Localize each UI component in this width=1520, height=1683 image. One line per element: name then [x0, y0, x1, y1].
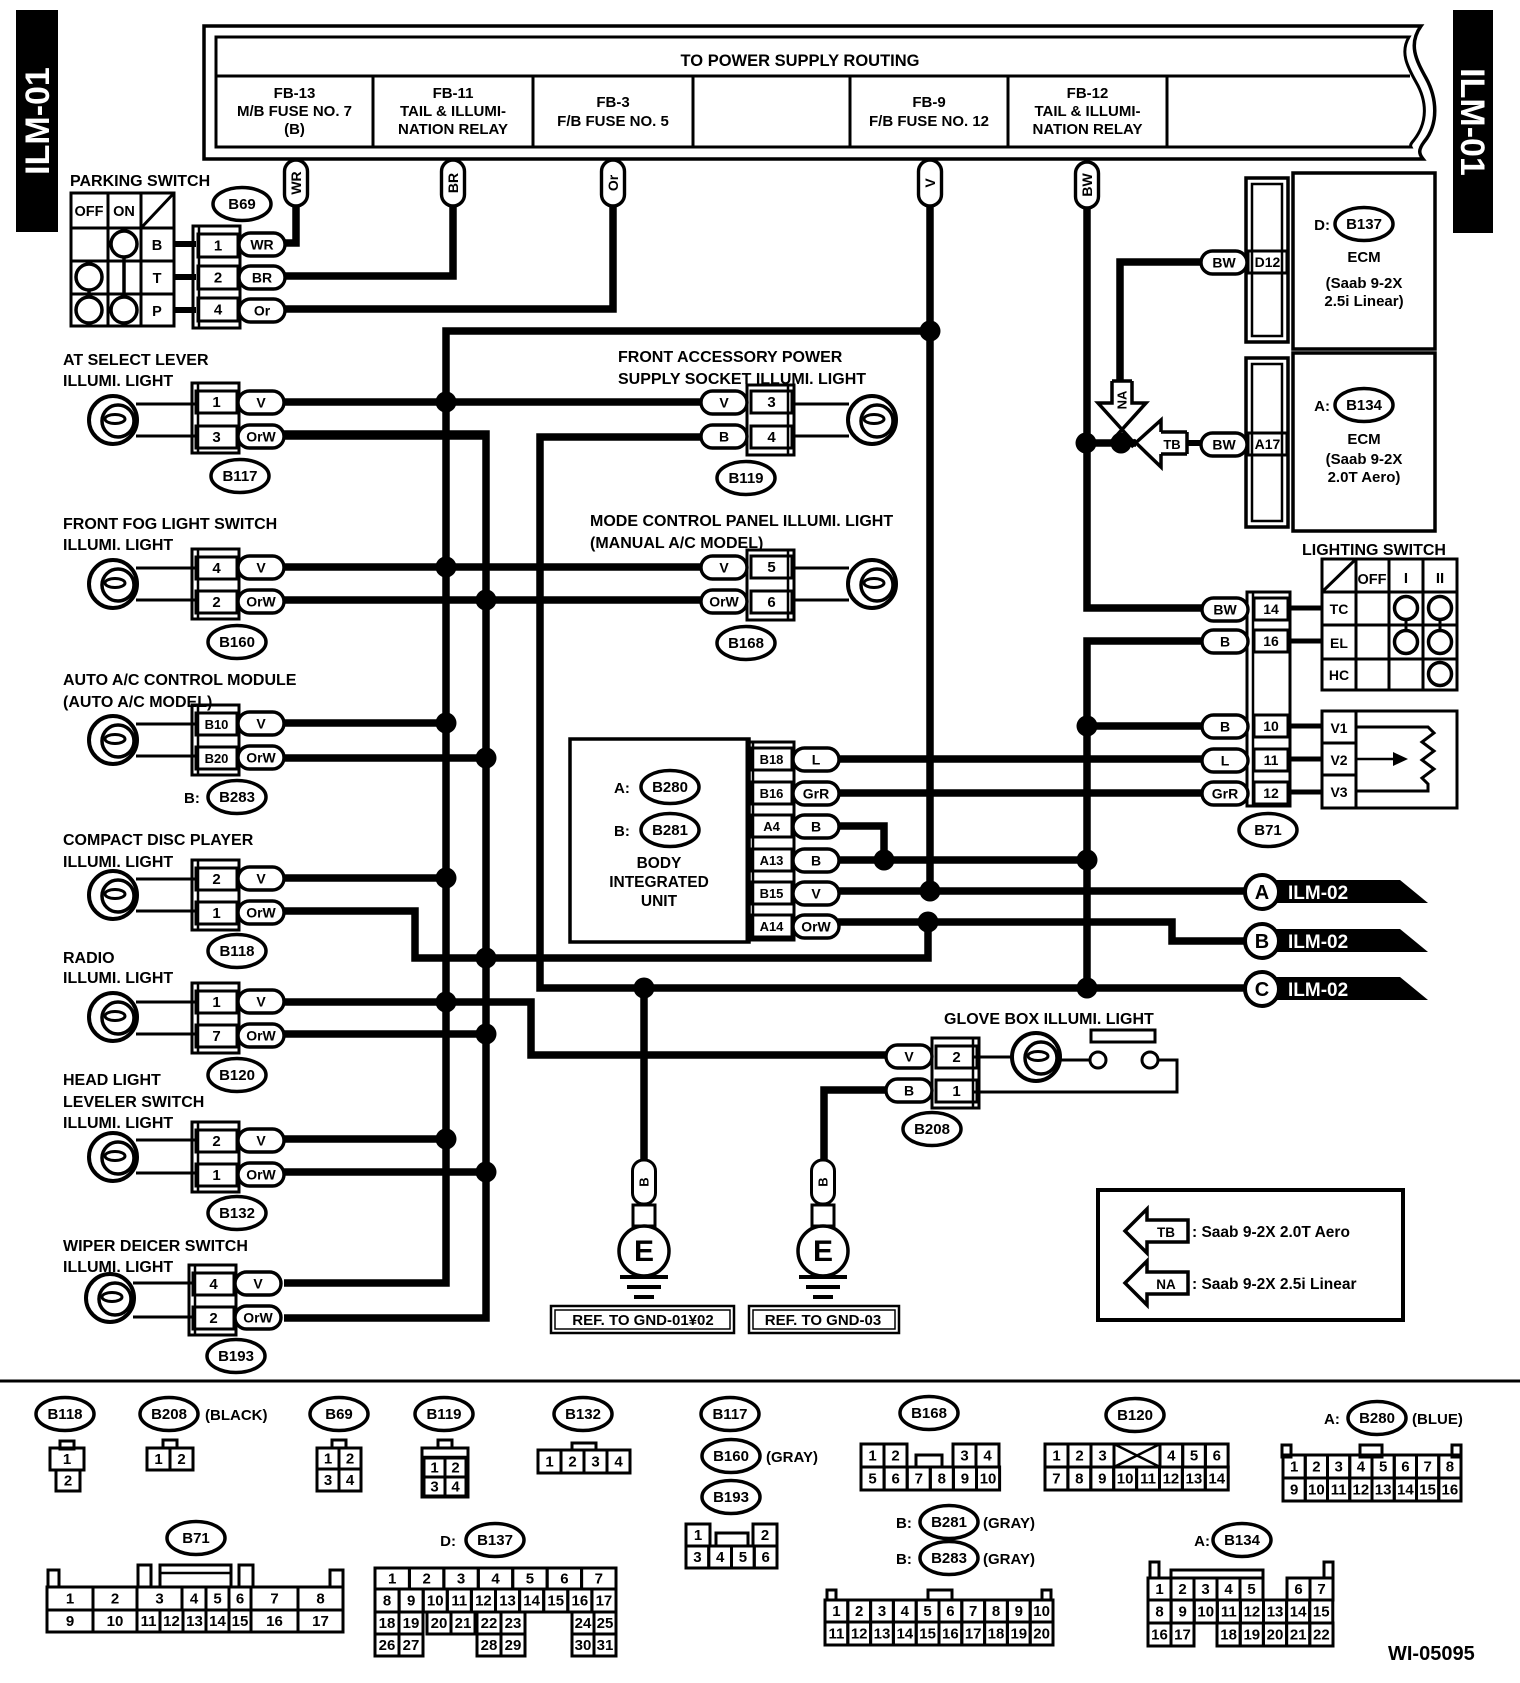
wire parking switch stubs	[174, 244, 196, 310]
svg-text:BODY: BODY	[637, 855, 682, 872]
connector body integrated unit pins	[747, 742, 839, 940]
svg-text:A:: A:	[1324, 1411, 1340, 1428]
ECM U2 Saab 9-2X 2.5i Linear	[1293, 173, 1435, 349]
svg-text:4: 4	[491, 1571, 500, 1588]
svg-text:WR: WR	[250, 237, 273, 253]
svg-text:16: 16	[572, 1593, 589, 1610]
svg-text:4: 4	[716, 1549, 725, 1566]
arrow TB (2.0T Aero)	[1131, 420, 1187, 467]
svg-text:: Saab 9-2X 2.0T Aero: : Saab 9-2X 2.0T Aero	[1192, 1224, 1350, 1241]
svg-text:15: 15	[919, 1626, 936, 1643]
label ref to GND-03	[749, 1306, 899, 1333]
svg-text:M/B FUSE NO. 7: M/B FUSE NO. 7	[237, 103, 352, 120]
svg-text:9: 9	[66, 1613, 74, 1630]
svg-text:2: 2	[422, 1571, 430, 1588]
wire B160 pin4 V to B168	[284, 563, 702, 571]
svg-text:D:: D:	[440, 1533, 456, 1550]
svg-text:5: 5	[868, 1471, 876, 1488]
svg-text:B69: B69	[228, 196, 256, 213]
switch S2 lighting switch	[1302, 542, 1457, 690]
svg-text:4: 4	[614, 1454, 623, 1471]
wire B280 pin B16 GrR to B71	[838, 789, 1202, 797]
wire BW drop from FB-12	[1076, 162, 1203, 608]
svg-text:14: 14	[1290, 1604, 1307, 1621]
svg-text:15: 15	[232, 1613, 249, 1630]
wire B71 pin stubs to switch	[1290, 608, 1322, 792]
svg-text:1: 1	[1290, 1459, 1298, 1476]
svg-text:: Saab 9-2X 2.5i Linear: : Saab 9-2X 2.5i Linear	[1192, 1276, 1357, 1293]
wire B280 pin A4 B	[838, 826, 884, 860]
svg-text:E: E	[813, 1235, 833, 1268]
arrow NA (2.5i Linear)	[1098, 381, 1146, 445]
svg-text:P: P	[152, 304, 162, 320]
svg-text:L: L	[812, 752, 821, 768]
svg-text:TB: TB	[1157, 1225, 1175, 1240]
svg-text:2: 2	[209, 1310, 217, 1327]
wire B118 pin2 V	[284, 874, 446, 882]
connector B119	[701, 385, 794, 495]
svg-text:13: 13	[499, 1593, 516, 1610]
svg-text:FRONT FOG LIGHT SWITCH: FRONT FOG LIGHT SWITCH	[63, 516, 277, 533]
svg-text:L: L	[1221, 753, 1230, 769]
svg-text:6: 6	[946, 1603, 954, 1620]
svg-text:7: 7	[1317, 1581, 1325, 1598]
connector B132	[192, 1122, 284, 1230]
svg-text:V: V	[719, 395, 729, 411]
svg-text:17: 17	[1174, 1627, 1191, 1644]
svg-text:2: 2	[212, 871, 220, 888]
svg-text:B168: B168	[728, 635, 764, 652]
svg-text:ILM-02: ILM-02	[1288, 932, 1348, 953]
connector pinout B208 (BLACK)	[140, 1398, 267, 1471]
svg-text:22: 22	[1313, 1627, 1330, 1644]
connector B283	[184, 705, 284, 814]
svg-text:12: 12	[475, 1593, 492, 1610]
svg-text:3: 3	[430, 1479, 438, 1496]
svg-text:3: 3	[1334, 1459, 1342, 1476]
svg-text:B: B	[719, 429, 729, 445]
svg-text:16: 16	[266, 1613, 283, 1630]
svg-text:3: 3	[457, 1571, 465, 1588]
page tag bar left ILM-01	[16, 10, 58, 232]
svg-text:14: 14	[523, 1593, 540, 1610]
wire ground drop from C-net	[640, 988, 648, 1160]
svg-text:V: V	[904, 1049, 914, 1065]
svg-text:8: 8	[1446, 1459, 1454, 1476]
svg-text:10: 10	[427, 1593, 444, 1610]
svg-text:(GRAY): (GRAY)	[983, 1515, 1035, 1532]
wire V drop from FB-9	[919, 160, 942, 891]
ground E GND-03	[798, 1160, 848, 1297]
svg-text:2.0T Aero): 2.0T Aero)	[1328, 469, 1401, 486]
legend box	[1098, 1190, 1403, 1320]
wire BW link to trunk	[1086, 439, 1136, 447]
svg-text:9: 9	[1178, 1604, 1186, 1621]
wire B119 pin4 B to C-net	[540, 437, 1247, 988]
svg-text:B: B	[637, 1177, 652, 1186]
svg-text:16: 16	[942, 1626, 959, 1643]
svg-text:7: 7	[270, 1591, 278, 1608]
svg-text:FB-3: FB-3	[596, 94, 629, 111]
svg-text:20: 20	[431, 1615, 448, 1632]
svg-text:23: 23	[505, 1615, 522, 1632]
svg-text:10: 10	[107, 1613, 124, 1630]
page tag bar right ILM-01	[1453, 10, 1493, 233]
svg-text:6: 6	[767, 594, 775, 611]
svg-text:5: 5	[739, 1549, 747, 1566]
wire BW to D12	[1120, 262, 1201, 381]
svg-text:REF. TO GND-03: REF. TO GND-03	[765, 1312, 881, 1329]
svg-text:3: 3	[1098, 1448, 1106, 1465]
svg-text:8: 8	[938, 1471, 946, 1488]
svg-text:14: 14	[1208, 1471, 1225, 1488]
svg-text:OrW: OrW	[246, 750, 276, 766]
svg-text:OrW: OrW	[246, 1167, 276, 1183]
svg-text:6: 6	[1401, 1459, 1409, 1476]
svg-text:10: 10	[1117, 1471, 1134, 1488]
svg-text:4: 4	[190, 1591, 199, 1608]
svg-text:3: 3	[324, 1472, 332, 1489]
svg-text:HC: HC	[1329, 667, 1349, 683]
wire B120 pin1 V to glove box	[284, 1002, 886, 1055]
svg-text:15: 15	[547, 1593, 564, 1610]
svg-text:25: 25	[597, 1615, 614, 1632]
svg-text:2: 2	[952, 1049, 960, 1066]
svg-text:V1: V1	[1330, 720, 1347, 736]
svg-text:6: 6	[560, 1571, 568, 1588]
svg-text:D12: D12	[1255, 254, 1281, 270]
svg-text:NATION RELAY: NATION RELAY	[1032, 121, 1142, 138]
svg-text:TC: TC	[1330, 601, 1349, 617]
svg-text:BW: BW	[1079, 173, 1095, 197]
svg-text:1: 1	[66, 1591, 74, 1608]
svg-text:4: 4	[212, 560, 221, 577]
connector B69	[193, 188, 285, 329]
svg-text:7: 7	[212, 1028, 220, 1045]
svg-text:8: 8	[383, 1593, 391, 1610]
node OrW junction at A14	[918, 912, 939, 933]
svg-text:8: 8	[1075, 1471, 1083, 1488]
svg-text:(B): (B)	[284, 121, 305, 138]
svg-text:V: V	[256, 1133, 266, 1149]
svg-text:A13: A13	[760, 853, 784, 868]
svg-text:ON: ON	[113, 204, 135, 220]
svg-text:B208: B208	[151, 1406, 187, 1423]
wire Or drop from FB-3	[284, 160, 625, 309]
svg-text:20: 20	[1033, 1626, 1050, 1643]
svg-text:2: 2	[451, 1460, 459, 1477]
svg-text:12: 12	[1353, 1482, 1370, 1499]
svg-text:19: 19	[403, 1615, 420, 1632]
svg-text:6: 6	[761, 1549, 769, 1566]
svg-text:14: 14	[1397, 1482, 1414, 1499]
svg-text:BW: BW	[1213, 602, 1237, 618]
svg-text:21: 21	[1290, 1627, 1307, 1644]
svg-text:9: 9	[1015, 1603, 1023, 1620]
svg-text:D:: D:	[1314, 217, 1330, 234]
lamp wiper deicer switch illumi light	[63, 1238, 248, 1322]
svg-text:Or: Or	[605, 174, 621, 191]
svg-text:FRONT ACCESSORY POWER: FRONT ACCESSORY POWER	[618, 349, 843, 366]
wire B280 pin A14 OrW to B ILM-02	[838, 922, 1247, 941]
svg-text:22: 22	[481, 1615, 498, 1632]
lamp radio illumi light	[63, 950, 196, 1041]
svg-text:II: II	[1436, 570, 1444, 587]
wire B283 pin B10 V	[284, 719, 446, 727]
switch glove box door switch	[974, 1030, 1177, 1092]
svg-text:1: 1	[212, 394, 220, 411]
svg-text:30: 30	[575, 1637, 592, 1654]
connector B117	[192, 383, 284, 493]
svg-text:B120: B120	[1117, 1407, 1153, 1424]
wire B71 pin16 B trunk	[1087, 641, 1202, 988]
svg-text:21: 21	[455, 1615, 472, 1632]
svg-text:12: 12	[1163, 1471, 1180, 1488]
svg-text:B281: B281	[652, 822, 688, 839]
power supply routing banner	[204, 26, 1435, 159]
svg-text:(Saab 9-2X: (Saab 9-2X	[1326, 275, 1403, 292]
svg-text:11: 11	[1264, 752, 1279, 768]
node V junction at B15	[920, 881, 941, 902]
svg-text:10: 10	[1308, 1482, 1325, 1499]
svg-text:1: 1	[388, 1571, 396, 1588]
svg-text:V: V	[256, 871, 266, 887]
svg-text:14: 14	[896, 1626, 913, 1643]
wire TB to A17	[1186, 440, 1201, 446]
node V trunk junctions	[436, 321, 941, 1150]
svg-text:B280: B280	[652, 779, 688, 796]
svg-text:UNIT: UNIT	[641, 893, 678, 910]
connector B118	[192, 860, 284, 968]
svg-text:2: 2	[891, 1448, 899, 1465]
svg-text:11: 11	[1221, 1604, 1237, 1621]
lamp auto A/C control module illumi light	[63, 672, 297, 764]
svg-text:OrW: OrW	[246, 429, 276, 445]
svg-text:WIPER DEICER SWITCH: WIPER DEICER SWITCH	[63, 1238, 248, 1255]
svg-text:18: 18	[1220, 1627, 1237, 1644]
svg-text:12: 12	[1244, 1604, 1261, 1621]
svg-text:V: V	[922, 178, 938, 188]
connector pinout A B280 (BLUE)	[1282, 1402, 1463, 1502]
unit U1 body integrated unit	[570, 739, 749, 942]
svg-text:B193: B193	[713, 1489, 749, 1506]
svg-text:12: 12	[851, 1626, 868, 1643]
wire B280 pin A13 B	[838, 856, 1087, 864]
svg-text:6: 6	[1213, 1448, 1221, 1465]
svg-text:ILLUMI. LIGHT: ILLUMI. LIGHT	[63, 373, 173, 390]
svg-text:(BLUE): (BLUE)	[1412, 1411, 1463, 1428]
svg-text:RADIO: RADIO	[63, 950, 115, 967]
svg-text:INTEGRATED: INTEGRATED	[609, 874, 709, 891]
svg-text:26: 26	[379, 1637, 396, 1654]
svg-text:11: 11	[451, 1593, 467, 1610]
svg-text:A17: A17	[1255, 436, 1281, 452]
svg-text:OrW: OrW	[246, 594, 276, 610]
svg-text:WR: WR	[288, 171, 304, 194]
svg-text:B16: B16	[760, 786, 784, 801]
svg-text:4: 4	[209, 1276, 218, 1293]
connector B120	[192, 983, 284, 1092]
svg-text:3: 3	[155, 1591, 163, 1608]
svg-text:ILM-02: ILM-02	[1288, 980, 1348, 1001]
svg-text:V: V	[256, 560, 266, 576]
wire B132 pin1 OrW	[284, 1168, 486, 1176]
svg-text:A:: A:	[1314, 398, 1330, 415]
svg-text:ILLUMI. LIGHT: ILLUMI. LIGHT	[63, 854, 173, 871]
svg-text:OrW: OrW	[246, 905, 276, 921]
svg-text:5: 5	[1190, 1448, 1198, 1465]
svg-text:28: 28	[481, 1637, 498, 1654]
svg-text:TAIL & ILLUMI-: TAIL & ILLUMI-	[400, 103, 506, 120]
svg-text:B:: B:	[896, 1551, 912, 1568]
lamp compact disc player illumi light	[63, 832, 254, 919]
wire B71 pin10 B	[1087, 722, 1202, 730]
connector pinout B119	[415, 1398, 473, 1498]
wire WR drop from FB-13	[284, 160, 308, 243]
svg-text:GrR: GrR	[803, 786, 829, 802]
svg-text:OFF: OFF	[75, 204, 104, 220]
svg-text:V: V	[811, 886, 821, 902]
svg-text:A:: A:	[1194, 1533, 1210, 1550]
svg-text:13: 13	[874, 1626, 891, 1643]
connector B208	[886, 1038, 979, 1146]
svg-text:16: 16	[1442, 1482, 1459, 1499]
svg-text:TO POWER SUPPLY ROUTING: TO POWER SUPPLY ROUTING	[681, 52, 920, 70]
svg-text:B15: B15	[760, 886, 784, 901]
ECM U3 Saab 9-2X 2.0T Aero	[1293, 353, 1435, 531]
svg-text:A4: A4	[763, 819, 780, 834]
svg-text:1: 1	[868, 1448, 876, 1465]
svg-text:FB-9: FB-9	[912, 94, 945, 111]
svg-text:F/B FUSE NO. 5: F/B FUSE NO. 5	[557, 113, 669, 130]
svg-text:V: V	[256, 994, 266, 1010]
svg-text:(GRAY): (GRAY)	[983, 1551, 1035, 1568]
connector pinout grid B281	[825, 1590, 1053, 1645]
wire B280 pin B15 V to A ILM-02	[838, 887, 1247, 895]
wire B120 pin7 OrW	[284, 1030, 486, 1038]
svg-text:3: 3	[212, 429, 220, 446]
svg-text:A: A	[1255, 882, 1269, 904]
svg-text:2: 2	[64, 1473, 72, 1490]
svg-text:B: B	[811, 853, 821, 869]
svg-text:B: B	[1220, 719, 1230, 735]
svg-text:SUPPLY SOCKET ILLUMI. LIGHT: SUPPLY SOCKET ILLUMI. LIGHT	[618, 371, 866, 388]
svg-text:24: 24	[575, 1615, 592, 1632]
wire B283 pin B20 OrW	[284, 754, 486, 762]
svg-text:B132: B132	[219, 1205, 255, 1222]
svg-text:1: 1	[212, 994, 220, 1011]
svg-text:B137: B137	[1346, 216, 1382, 233]
svg-text:6: 6	[891, 1471, 899, 1488]
svg-text:B: B	[1255, 931, 1269, 953]
svg-text:18: 18	[988, 1626, 1005, 1643]
svg-text:3: 3	[693, 1549, 701, 1566]
svg-text:ILM-01: ILM-01	[1453, 68, 1491, 176]
svg-text:A14: A14	[760, 919, 785, 934]
svg-text:7: 7	[595, 1571, 603, 1588]
svg-text:1: 1	[324, 1451, 332, 1468]
svg-text:TB: TB	[1163, 437, 1180, 452]
svg-text:7: 7	[1423, 1459, 1431, 1476]
svg-text:B: B	[816, 1177, 831, 1186]
svg-text:ILLUMI. LIGHT: ILLUMI. LIGHT	[63, 970, 173, 987]
svg-text:B168: B168	[911, 1405, 947, 1422]
svg-text:REF. TO GND-01¥02: REF. TO GND-01¥02	[572, 1312, 713, 1329]
svg-text:B118: B118	[219, 943, 254, 960]
svg-text:2: 2	[761, 1527, 769, 1544]
svg-text:OrW: OrW	[243, 1310, 273, 1326]
svg-text:2.5i Linear): 2.5i Linear)	[1324, 293, 1403, 310]
svg-text:OrW: OrW	[801, 919, 831, 935]
wire BR drop from FB-11	[284, 160, 465, 276]
connector B160	[192, 549, 284, 659]
svg-text:15: 15	[1419, 1482, 1436, 1499]
svg-text:12: 12	[163, 1613, 180, 1630]
svg-text:11: 11	[1140, 1471, 1156, 1488]
svg-text:11: 11	[828, 1626, 844, 1643]
wire B117 pin1 V	[284, 398, 702, 406]
svg-text:3: 3	[878, 1603, 886, 1620]
svg-text:B119: B119	[426, 1406, 461, 1423]
svg-text:FB-11: FB-11	[433, 85, 474, 102]
svg-text:B20: B20	[205, 751, 229, 766]
svg-text:4: 4	[346, 1472, 355, 1489]
svg-text:20: 20	[1267, 1627, 1284, 1644]
svg-text:11: 11	[141, 1613, 157, 1630]
lamp mode control panel illumi light	[590, 513, 896, 608]
svg-text:1: 1	[63, 1451, 71, 1468]
svg-text:9: 9	[1098, 1471, 1106, 1488]
svg-text:I: I	[1404, 570, 1408, 587]
svg-text:ILLUMI. LIGHT: ILLUMI. LIGHT	[63, 1115, 173, 1132]
separator line	[0, 1380, 1520, 1383]
svg-text:8: 8	[316, 1591, 324, 1608]
svg-text:NATION RELAY: NATION RELAY	[398, 121, 508, 138]
pin D12 BW	[1201, 251, 1287, 274]
svg-text:AT SELECT LEVER: AT SELECT LEVER	[63, 352, 209, 369]
wire B117 pin3 OrW	[284, 432, 486, 440]
connector pinout B71	[47, 1522, 343, 1633]
svg-text:ECM: ECM	[1347, 431, 1380, 448]
svg-text:5: 5	[767, 559, 775, 576]
connector pinout B69	[310, 1398, 368, 1492]
svg-text:2: 2	[346, 1451, 354, 1468]
svg-text:B: B	[811, 819, 821, 835]
svg-text:(AUTO A/C MODEL): (AUTO A/C MODEL)	[63, 694, 212, 711]
svg-text:B10: B10	[205, 717, 229, 732]
svg-text:EL: EL	[1330, 635, 1348, 651]
svg-text:7: 7	[969, 1603, 977, 1620]
svg-text:V: V	[719, 560, 729, 576]
svg-text:2: 2	[212, 594, 220, 611]
svg-text:PARKING SWITCH: PARKING SWITCH	[70, 173, 210, 190]
svg-text:4: 4	[767, 429, 776, 446]
svg-text:B283: B283	[219, 789, 255, 806]
svg-text:B281: B281	[931, 1514, 967, 1531]
svg-text:B117: B117	[712, 1406, 747, 1423]
connector B193	[189, 1265, 281, 1373]
wire B208 pin1 B to ground	[824, 1090, 886, 1160]
svg-text:4: 4	[1167, 1448, 1176, 1465]
node C-net junctions	[634, 978, 1098, 999]
svg-text:B:: B:	[184, 790, 200, 807]
svg-text:10: 10	[1197, 1604, 1214, 1621]
svg-text:1: 1	[694, 1527, 702, 1544]
lamp front accessory power supply socket illumi light	[618, 349, 896, 444]
svg-text:ILM-02: ILM-02	[1288, 883, 1348, 904]
svg-text:1: 1	[832, 1603, 840, 1620]
svg-text:5: 5	[213, 1591, 221, 1608]
